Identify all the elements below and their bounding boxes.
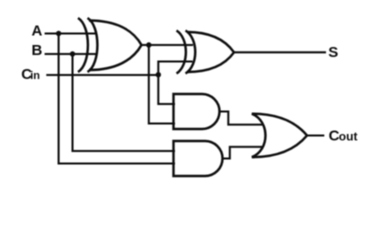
svg-text:A: A: [32, 23, 43, 40]
svg-text:out: out: [339, 130, 358, 144]
svg-text:S: S: [328, 44, 338, 61]
svg-text:B: B: [32, 42, 43, 59]
svg-text:in: in: [30, 70, 40, 82]
